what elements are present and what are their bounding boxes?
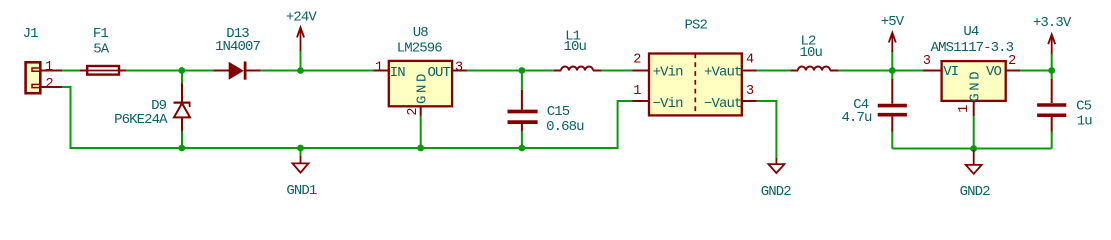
power +3.3V — [1033, 15, 1072, 54]
svg-text:2: 2 — [406, 108, 421, 116]
power +24V — [286, 10, 318, 51]
svg-text:−Vaut: −Vaut — [704, 96, 742, 112]
node junction GND1 rail — [297, 145, 304, 152]
svg-text:GND: GND — [968, 69, 984, 102]
svg-text:+5V: +5V — [881, 14, 905, 30]
wire C5 top — [1051, 71, 1053, 80]
svg-text:2: 2 — [633, 53, 641, 68]
svg-text:U4: U4 — [963, 24, 979, 40]
svg-text:+3.3V: +3.3V — [1033, 15, 1072, 31]
wire +5V riser — [891, 51, 893, 71]
wire C15 bottom — [521, 131, 523, 149]
connector J1 — [23, 26, 62, 93]
wire +3.3V riser — [1051, 54, 1053, 71]
wire C4 bottom — [891, 131, 893, 148]
regulator U4 AMS1117-3.3 — [923, 24, 1020, 116]
node junction +3.3V / C5 — [1048, 67, 1055, 74]
power +5V — [881, 14, 905, 52]
wire PS2 pin4 to L2 — [756, 70, 791, 72]
svg-text:2: 2 — [1008, 54, 1016, 69]
node junction +24V — [297, 67, 304, 74]
svg-text:4.7u: 4.7u — [841, 110, 872, 126]
wire +24V riser — [300, 50, 302, 71]
svg-text:10u: 10u — [800, 45, 823, 61]
svg-text:GND: GND — [414, 71, 430, 104]
svg-text:−Vin: −Vin — [653, 96, 684, 112]
svg-text:+24V: +24V — [286, 10, 318, 26]
svg-text:GND2: GND2 — [761, 184, 792, 200]
wire D9 bottom — [181, 131, 183, 148]
svg-text:3: 3 — [746, 84, 754, 99]
svg-text:4: 4 — [746, 53, 754, 68]
svg-text:+Vin: +Vin — [653, 64, 684, 80]
svg-text:3: 3 — [455, 60, 463, 75]
svg-text:LM2596: LM2596 — [397, 41, 443, 57]
wire U4 GND to rail — [973, 116, 975, 149]
svg-text:GND1: GND1 — [286, 183, 317, 199]
wire J1 pin1 to F1 — [62, 70, 81, 72]
capacitor C15 — [508, 90, 585, 135]
node junction C15 top — [519, 67, 526, 74]
node junction +5V / C4 — [889, 67, 896, 74]
svg-text:J1: J1 — [23, 26, 39, 42]
node junction C15 bottom rail — [519, 145, 526, 152]
svg-text:VO: VO — [986, 64, 1002, 80]
wire C5 bottom — [1051, 131, 1053, 148]
capacitor C4 — [841, 79, 906, 132]
node junction D13 anode / D9 — [178, 67, 185, 74]
node junction D9 bottom rail — [178, 145, 185, 152]
svg-text:OUT: OUT — [427, 65, 450, 81]
diode D13 — [214, 26, 261, 80]
svg-text:+Vaut: +Vaut — [704, 64, 742, 80]
wire U8 OUT to L1 — [466, 70, 554, 72]
svg-text:P6KE24A: P6KE24A — [114, 112, 168, 128]
wire L2 to U4 VI — [838, 70, 924, 72]
wire GND1 stub — [300, 148, 302, 157]
svg-text:0.68u: 0.68u — [546, 119, 584, 135]
wire ground rail right — [892, 148, 1051, 150]
wire U4 VO to +3.3V node — [1019, 70, 1052, 72]
wire PS2 pin3 to GND2 — [756, 101, 776, 159]
svg-text:1: 1 — [633, 84, 641, 99]
wire F1 to D13 — [126, 70, 214, 72]
svg-text:1: 1 — [375, 60, 383, 75]
svg-text:VI: VI — [943, 64, 958, 80]
wire L1 to PS2 — [601, 70, 633, 72]
svg-text:1: 1 — [45, 60, 53, 75]
svg-text:10u: 10u — [563, 39, 586, 55]
inductor L1 — [554, 28, 601, 70]
svg-text:PS2: PS2 — [684, 18, 707, 34]
svg-text:U8: U8 — [413, 25, 429, 41]
inductor L2 — [791, 33, 839, 70]
svg-text:2: 2 — [45, 77, 53, 92]
fuse F1 — [80, 26, 126, 75]
svg-text:IN: IN — [390, 65, 406, 81]
wire C4 top — [891, 71, 893, 80]
wire D13 to U8 — [261, 70, 374, 72]
node junction U8 GND rail — [417, 145, 424, 152]
ground GND1 — [286, 156, 317, 199]
svg-text:F1: F1 — [93, 26, 109, 42]
wire U8 GND to rail — [420, 116, 422, 148]
svg-text:1N4007: 1N4007 — [215, 39, 261, 55]
ground GND2 under U4 — [960, 150, 991, 200]
wire C15 top — [521, 71, 523, 91]
TVS diode D9 — [114, 83, 190, 131]
svg-text:C5: C5 — [1076, 98, 1092, 114]
svg-text:3: 3 — [923, 54, 931, 69]
wire J1 pin2 down to ground rail — [62, 87, 635, 148]
svg-text:5A: 5A — [93, 41, 110, 57]
svg-text:AMS1117-3.3: AMS1117-3.3 — [931, 40, 1014, 56]
ground GND2 under PS2 — [761, 158, 792, 200]
regulator U8 LM2596 — [374, 25, 467, 116]
wire D9 top — [181, 71, 183, 84]
module PS2 — [633, 18, 757, 116]
svg-text:1: 1 — [957, 105, 972, 113]
node junction U4 GND rail — [970, 145, 977, 152]
capacitor C5 — [1037, 79, 1092, 132]
svg-text:GND2: GND2 — [960, 184, 991, 200]
svg-text:C15: C15 — [547, 104, 570, 120]
svg-text:1u: 1u — [1077, 113, 1093, 129]
